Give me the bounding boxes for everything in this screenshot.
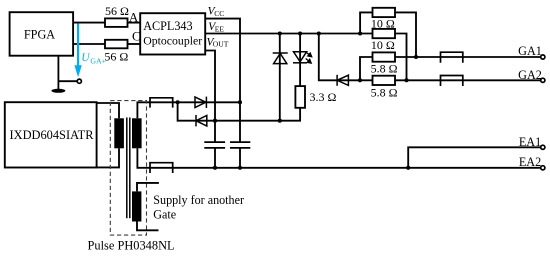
terminal circle (U_GA+ reference) <box>77 79 81 83</box>
svg-text:GA1: GA1 <box>518 44 542 58</box>
junction zener top on rail <box>278 31 282 35</box>
junction EA1 branch <box>406 166 410 170</box>
transformer primary winding <box>114 118 124 148</box>
svg-text:10 Ω: 10 Ω <box>371 38 395 52</box>
svg-text:Pulse PH0348NL: Pulse PH0348NL <box>88 238 175 252</box>
svg-text:5.8 Ω: 5.8 Ω <box>371 62 398 76</box>
label U_GA+ (cyan) <box>81 52 106 65</box>
ferrite bead FB3 (GA1) <box>441 52 463 63</box>
svg-text:U: U <box>81 52 90 64</box>
junction zener bottom on lower branch <box>278 119 282 123</box>
terminal EA2 <box>541 166 545 170</box>
resistor R5 10 ohm (in rail) <box>373 29 407 80</box>
transformer secondary winding 1 <box>132 118 142 148</box>
transformer secondary winding 2 <box>132 191 141 221</box>
svg-text:56 Ω: 56 Ω <box>104 49 128 63</box>
svg-text:GA+: GA+ <box>90 57 106 66</box>
resistor R1 56 ohm <box>105 18 128 27</box>
junction rail / R4 left <box>358 31 362 35</box>
junction D1 output to V_CC bus <box>238 100 242 104</box>
pin label V_OUT <box>207 36 229 48</box>
driver U3 IXDD604SIATR <box>5 102 97 167</box>
svg-text:Optocoupler: Optocoupler <box>143 33 202 47</box>
junction C1 bottom on EA rail <box>213 166 217 170</box>
wire GA2 line <box>395 79 541 81</box>
wire R1 to pin A <box>128 22 141 24</box>
svg-text:ACPL343: ACPL343 <box>143 19 192 33</box>
LED D5 branch wire <box>299 34 301 87</box>
resistor R2 56 ohm <box>105 40 128 49</box>
junction R4 right on GA1 line <box>414 55 418 59</box>
diode D2 (lower rectifier, pointing left) <box>196 115 207 126</box>
svg-text:OUT: OUT <box>213 39 229 48</box>
svg-text:Gate: Gate <box>153 207 176 221</box>
svg-text:CC: CC <box>214 9 224 18</box>
wire EA1 branch <box>408 147 540 168</box>
node junction upper bead / lower branch <box>176 100 180 104</box>
svg-text:EE: EE <box>215 25 225 34</box>
svg-text:5.8 Ω: 5.8 Ω <box>371 86 398 100</box>
wire FPGA to R2 (cathode path) <box>73 43 105 45</box>
svg-text:IXDD604SIATR: IXDD604SIATR <box>10 128 95 142</box>
ferrite bead FB2 (lower secondary lead) <box>150 163 173 173</box>
wire IXDD to transformer primary bottom <box>97 148 119 167</box>
transformer T1 dashed outline <box>110 101 146 236</box>
wire V_OUT vertical below capacitor C1 <box>214 148 216 168</box>
wire V_EE rail <box>205 33 372 35</box>
junction LED top on rail <box>298 31 302 35</box>
terminal EA1 <box>541 145 545 149</box>
svg-text:FPGA: FPGA <box>24 27 55 41</box>
LED D5 emission arrows <box>306 52 312 63</box>
svg-text:Supply for another: Supply for another <box>153 193 244 207</box>
voltage arrow U_GA+ (cyan) <box>74 24 81 78</box>
wire EA common rail <box>137 148 540 168</box>
wire secondary-2 bottom lead (supply output) <box>137 222 159 231</box>
svg-text:A: A <box>129 9 139 24</box>
wire secondary-2 top lead (supply output) <box>137 183 159 192</box>
junction D3 branch on rail <box>317 31 321 35</box>
diode D3 (pointing left) <box>337 75 348 86</box>
capacitor C1 <box>204 142 225 148</box>
wire ground branch to probe terminal <box>58 80 77 82</box>
wire V_CC pin to vertical bus <box>205 19 240 143</box>
svg-text:EA1: EA1 <box>519 135 541 149</box>
ground symbol <box>51 89 65 93</box>
junction V_OUT line on lower branch <box>213 119 217 123</box>
resistor R4 10 ohm (upper) <box>360 8 416 57</box>
svg-text:3.3 Ω: 3.3 Ω <box>310 90 337 104</box>
zener diode D4 symbol <box>273 53 288 64</box>
wire V_CC bus below capacitor C2 <box>239 148 241 168</box>
ferrite bead FB1 (upper secondary lead) <box>150 98 173 108</box>
wire V_OUT pin to vertical <box>205 51 215 143</box>
wire FPGA ground lead <box>57 56 59 90</box>
svg-text:GA2: GA2 <box>518 68 542 82</box>
zener diode D4 branch wire <box>279 34 281 121</box>
terminal GA1 <box>541 55 545 59</box>
junction C2 bottom on EA rail <box>238 166 242 170</box>
resistor R7 5.8 ohm (GA2) <box>360 76 395 85</box>
wire R2 to pin C <box>128 43 141 45</box>
label supply for another gate <box>153 193 244 222</box>
LED D5 symbol <box>293 52 307 63</box>
capacitor C2 <box>230 142 250 148</box>
wire lower rectifier branch <box>178 102 301 120</box>
svg-text:EA2: EA2 <box>519 155 541 169</box>
junction R5 right on GA2 line <box>404 78 408 82</box>
terminal GA2 <box>541 78 545 82</box>
diode D1 (upper rectifier, pointing right) <box>195 97 206 108</box>
wire IXDD to transformer primary top <box>97 103 119 118</box>
wire rail to diode D3 <box>319 34 360 81</box>
FPGA block <box>10 12 74 56</box>
pin label V_EE <box>208 21 224 33</box>
wire FPGA to R1 (anode path) <box>73 22 105 24</box>
optocoupler U1 ACPL343 <box>140 13 205 54</box>
wire GA1 line <box>395 56 541 58</box>
pin label V_CC <box>208 6 225 18</box>
transformer core <box>127 118 130 219</box>
resistor R3 3.3 ohm <box>295 86 305 108</box>
wire secondary-1 top to rectifier upper branch <box>137 102 240 118</box>
ferrite bead FB4 (GA2) <box>441 76 463 87</box>
svg-text:56 Ω: 56 Ω <box>105 4 129 18</box>
resistor R6 5.8 ohm (GA1) <box>360 52 395 80</box>
junction D3 output node <box>358 78 362 82</box>
